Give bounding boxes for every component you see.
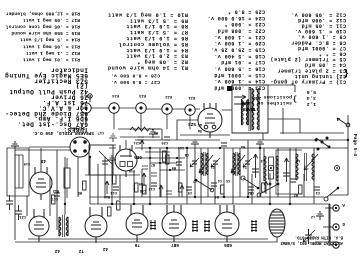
svg-text:R10: R10	[104, 194, 110, 198]
svg-text:R15 = 550 ohm wire wound: R15 = 550 ohm wire wound	[11, 30, 80, 36]
svg-text:3,4: 3,4	[306, 95, 316, 101]
svg-text:T1: T1	[243, 164, 247, 168]
svg-text:C14 = .1 600 v.: C14 = .1 600 v.	[214, 78, 265, 84]
svg-text:C17: C17	[52, 196, 58, 200]
svg-text:G: G	[342, 221, 345, 226]
svg-text:A: A	[342, 202, 345, 207]
svg-text:C23: C23	[20, 214, 26, 218]
svg-text:C19: C19	[24, 161, 30, 165]
svg-text:R2: R2	[294, 192, 298, 196]
svg-text:R9: R9	[139, 181, 143, 185]
svg-text:C18 = .5 400 v.: C18 = .5 400 v.	[214, 53, 265, 59]
svg-text:Page 5-4: Page 5-4	[352, 134, 358, 156]
svg-text:R3: R3	[241, 144, 245, 148]
svg-text:C21 = .1 600 v.: C21 = .1 600 v.	[214, 34, 265, 40]
svg-text:R13 = .05 meg 1 watt: R13 = .05 meg 1 watt	[23, 43, 80, 49]
svg-text:T2: T2	[78, 248, 84, 253]
svg-text:C23 = .008 *: C23 = .008 *	[224, 21, 265, 27]
svg-text:C17 = .01 mfd: C17 = .01 mfd	[221, 59, 265, 65]
svg-text:240: 240	[253, 95, 261, 100]
svg-text:C5: C5	[226, 178, 230, 182]
svg-text:C16: C16	[178, 145, 184, 149]
svg-text:C7: C7	[193, 178, 197, 182]
svg-text:C20: C20	[162, 140, 168, 144]
svg-text:positions: positions	[263, 94, 292, 100]
svg-text:R10 = 1.0 meg 1/3 watt: R10 = 1.0 meg 1/3 watt	[107, 11, 188, 17]
svg-text:R8: R8	[154, 130, 158, 134]
svg-text:C21: C21	[134, 140, 140, 144]
svg-text:R11 = .01 meg 1 watt: R11 = .01 meg 1 watt	[23, 57, 80, 63]
svg-text:E21: E21	[187, 95, 195, 99]
svg-text:1,2: 1,2	[306, 101, 316, 107]
svg-text:E24: E24	[111, 93, 119, 97]
svg-text:}: }	[292, 94, 297, 102]
svg-text:C8: C8	[185, 152, 189, 156]
svg-text:C10: C10	[129, 168, 135, 172]
svg-text:C13 = .0001 mfd: C13 = .0001 mfd	[214, 85, 265, 91]
svg-text:R16 = .05 meg tone control: R16 = .05 meg tone control	[6, 24, 80, 30]
svg-text:AC: AC	[198, 122, 202, 126]
svg-text:C28 = 8.0 500 v.: C28 = 8.0 500 v.	[111, 73, 160, 79]
svg-text:5Z3: 5Z3	[188, 121, 196, 126]
svg-text:C12: C12	[149, 186, 155, 190]
svg-text:R7: R7	[151, 162, 155, 166]
svg-text:C25 = 8.0 *: C25 = 8.0 *	[228, 9, 265, 15]
svg-text:C20 = .1 600 v.: C20 = .1 600 v.	[214, 40, 265, 46]
svg-text:C15 = .0001 mfd: C15 = .0001 mfd	[214, 72, 265, 78]
svg-text:5,6: 5,6	[306, 89, 316, 95]
svg-text:L2: L2	[311, 214, 315, 218]
svg-text:R9: R9	[172, 165, 176, 169]
svg-text:C27 = 8.0 500 v.: C27 = 8.0 500 v.	[111, 79, 160, 85]
svg-text:switches on same: switches on same	[241, 100, 292, 106]
svg-text:42: 42	[54, 248, 60, 253]
svg-text:C19 = 25.0 25 v.: C19 = 25.0 25 v.	[211, 47, 265, 53]
svg-text:6D6: 6D6	[224, 242, 232, 247]
svg-text:C12 = .05 600 v.: C12 = .05 600 v.	[291, 11, 346, 17]
svg-text:6B7: 6B7	[171, 242, 179, 247]
svg-text:E23: E23	[138, 93, 146, 97]
svg-text:42: 42	[102, 246, 108, 251]
svg-text:R12: R12	[53, 188, 59, 192]
svg-text:C4: C4	[218, 178, 222, 182]
svg-text:C14: C14	[110, 190, 117, 194]
svg-text:R8: R8	[78, 190, 82, 194]
svg-text:C18: C18	[140, 188, 146, 192]
svg-text:R17 = .05 meg 1 watt: R17 = .05 meg 1 watt	[23, 17, 80, 23]
svg-text:R14 = .5 meg 1/3 watt: R14 = .5 meg 1/3 watt	[20, 37, 80, 43]
svg-text:76: 76	[134, 242, 140, 247]
svg-text:L2: L2	[296, 158, 300, 162]
svg-text:L3: L3	[261, 158, 265, 162]
svg-text:C16 = .5 600 v.: C16 = .5 600 v.	[214, 66, 265, 72]
svg-text:C3: C3	[316, 190, 320, 194]
svg-text:Indicator: Indicator	[51, 66, 88, 73]
svg-text:C9: C9	[188, 190, 192, 194]
svg-text:SW: SW	[197, 128, 202, 132]
svg-text:C17: C17	[98, 130, 104, 134]
svg-text:T2: T2	[211, 164, 215, 168]
svg-text:R18 = 12,000 ohms, blender: R18 = 12,000 ohms, blender	[6, 10, 80, 16]
svg-text:R12 = .1 meg 1 watt: R12 = .1 meg 1 watt	[26, 50, 80, 56]
svg-text:TRANS: TRANS	[242, 106, 256, 111]
svg-text:C22 = .008 mfd: C22 = .008 mfd	[217, 28, 265, 34]
svg-text:C6: C6	[250, 190, 254, 194]
svg-text:B.A. WITH RADIO STD.: B.A. WITH RADIO STD.	[295, 235, 343, 239]
svg-text:E22: E22	[164, 94, 172, 98]
svg-text:C24 = 16.0 600 v.: C24 = 16.0 600 v.	[207, 15, 265, 21]
